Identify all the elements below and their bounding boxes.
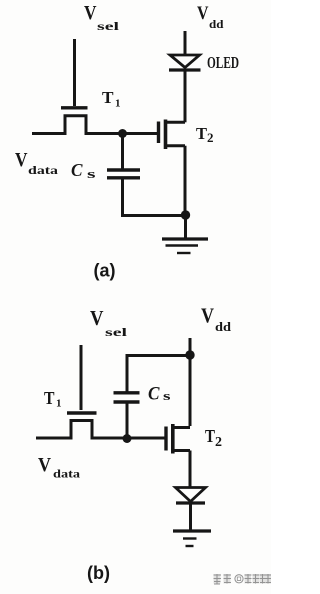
node Vdata (b) label [38, 455, 80, 481]
svg-text:V: V [84, 3, 97, 24]
ground (a) [162, 239, 208, 253]
svg-text:2: 2 [207, 130, 214, 145]
capacitor Cs (a) label [71, 160, 96, 181]
svg-text:s: s [163, 389, 171, 403]
svg-text:V: V [90, 306, 104, 330]
svg-text:dd: dd [209, 17, 224, 31]
wire junction up to capacitor bottom (b) [126, 402, 129, 439]
wire Vdd stub (b) [189, 338, 192, 355]
transistor T2 (b) drain lead [174, 426, 190, 429]
transistor T2 (a) channel bar [164, 120, 168, 150]
svg-text:T: T [205, 426, 215, 446]
svg-text:data: data [28, 163, 58, 177]
svg-text:C: C [71, 160, 83, 180]
wire T2 source down to diode anode (b) [189, 451, 192, 488]
diode OLED (a) cathode bar [169, 68, 201, 71]
diode OLED (a) triangle [170, 55, 200, 68]
capacitor Cs (a) plates [107, 168, 140, 171]
svg-text:(b): (b) [87, 563, 110, 583]
node Vsel (a) label [84, 3, 120, 33]
svg-text:1: 1 [56, 398, 62, 410]
transistor T1 (a) gate bar [61, 106, 88, 109]
node Vdd junction dot (b) [185, 350, 194, 359]
wire T2 drain up to OLED cathode (a) [184, 70, 187, 122]
transistor T1 (b) label [44, 388, 62, 410]
svg-text:OLED: OLED [207, 53, 239, 72]
svg-text:V: V [197, 3, 209, 24]
svg-text:sel: sel [105, 325, 128, 339]
svg-text:V: V [15, 150, 28, 171]
svg-text:s: s [87, 167, 96, 181]
node Vdata (a) label [15, 150, 58, 177]
svg-text:2: 2 [215, 435, 222, 450]
transistor T1 (b) gate bar [67, 411, 97, 414]
transistor T2 (a) source lead [167, 144, 185, 147]
transistor T2 (b) label [205, 426, 222, 450]
wire Vdd to OLED anode (a) [184, 31, 187, 55]
svg-text:T: T [196, 124, 208, 143]
svg-text:data: data [53, 467, 80, 481]
node junction dot (b) gate/storage [123, 434, 132, 443]
transistor T2 (b) source lead [174, 449, 190, 452]
node junction dot (a) gate/storage [118, 129, 127, 138]
node Vsel (b) label [90, 306, 128, 339]
wire capacitor top to Vdd rail (b) [127, 356, 190, 393]
diode (b) cathode bar [176, 501, 205, 504]
transistor T2 (b) gate bar [164, 427, 167, 451]
capacitor Cs (b) label [148, 384, 171, 405]
transistor T1 (a) label [102, 88, 121, 110]
transistor T2 (a) label [196, 124, 214, 145]
svg-text:dd: dd [215, 320, 231, 334]
svg-text:V: V [38, 455, 51, 476]
wire Vdd rail down to T2 drain (b) [189, 355, 192, 426]
svg-text:T: T [44, 388, 55, 408]
svg-text:T: T [102, 88, 114, 107]
diode (b) triangle [176, 488, 206, 502]
svg-text:sel: sel [97, 19, 120, 33]
wire diode cathode to ground (b) [189, 503, 192, 530]
wire Vdata row with T1 channel bump (a) [32, 116, 158, 134]
wire junction to ground symbol (a) [184, 215, 187, 238]
transistor T2 (a) drain lead [167, 121, 185, 124]
transistor T2 (a) gate bar [157, 122, 160, 144]
svg-text:V: V [201, 304, 214, 328]
wire Vsel gate line (b) [80, 345, 83, 410]
node Vdd (a) label [197, 3, 224, 31]
transistor T2 (b) channel bar [171, 424, 175, 454]
wire capacitor bottom to ground rail (a) [123, 178, 186, 216]
svg-text:C: C [148, 384, 160, 405]
wire Vdata row with T1 channel bump (b) [36, 421, 165, 439]
node junction dot (a) source/ground [181, 210, 190, 219]
svg-text:(a): (a) [94, 261, 116, 281]
capacitor Cs (b) plates [114, 400, 140, 403]
svg-text:1: 1 [115, 98, 121, 110]
wire T2 source down to ground junction (a) [184, 146, 187, 215]
wire junction to capacitor top (a) [121, 134, 124, 169]
watermark bottom-right [214, 574, 272, 584]
node Vdd (b) label [201, 304, 231, 335]
ground (b) [173, 531, 211, 546]
wire Vsel gate line (a) [73, 39, 76, 106]
